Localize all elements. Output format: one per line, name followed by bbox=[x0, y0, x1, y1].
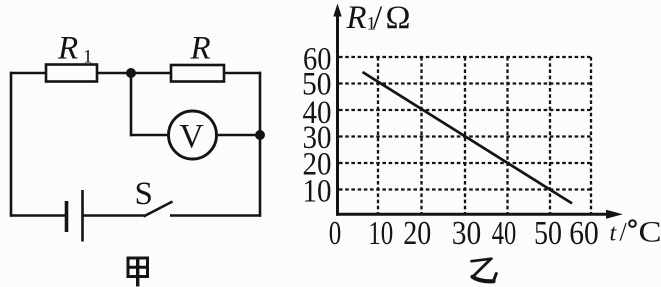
wire bottom right from switch to right rail bbox=[170, 214, 261, 217]
node A junction dot bbox=[126, 68, 136, 78]
gridline t=40 bbox=[506, 57, 508, 213]
node B junction dot bbox=[255, 130, 265, 140]
gridline R=40 bbox=[339, 109, 592, 111]
svg-text:C: C bbox=[639, 216, 661, 249]
gridline t=60 bbox=[590, 57, 592, 213]
svg-text:60: 60 bbox=[569, 215, 599, 252]
wire top-left from left rail to R1 bbox=[10, 72, 46, 75]
gridline t=30 bbox=[464, 57, 466, 213]
svg-text:0: 0 bbox=[329, 215, 342, 252]
y axis label R1/ohm bbox=[346, 0, 411, 36]
resistor R1 bbox=[46, 65, 97, 82]
svg-text:30: 30 bbox=[452, 215, 482, 252]
svg-text:50: 50 bbox=[534, 215, 562, 252]
y tick labels bbox=[302, 42, 332, 210]
voltmeter U1 bbox=[169, 111, 217, 159]
x axis bbox=[336, 213, 612, 216]
svg-text:/: / bbox=[620, 218, 628, 247]
gridline R=20 bbox=[339, 162, 592, 164]
gridline R=30 bbox=[339, 135, 592, 137]
svg-text:Ω: Ω bbox=[386, 0, 411, 36]
wire right rail lower bbox=[259, 135, 262, 217]
label jia (drawn CJK) bbox=[128, 258, 148, 287]
wire battery to switch bbox=[83, 214, 145, 217]
switch S blade bbox=[144, 202, 173, 217]
gridline R=50 bbox=[339, 82, 592, 84]
x tick labels bbox=[329, 215, 599, 252]
label yi (drawn CJK) bbox=[472, 259, 497, 282]
wire left rail bbox=[10, 72, 13, 217]
data line R1 vs t bbox=[363, 72, 573, 203]
x axis arrowhead bbox=[606, 210, 623, 219]
wire node A down to voltmeter branch bbox=[130, 73, 133, 136]
gridline t=10 bbox=[377, 57, 379, 213]
gridline t=20 bbox=[420, 57, 422, 213]
svg-text:10: 10 bbox=[368, 215, 393, 252]
svg-text:20: 20 bbox=[403, 215, 431, 252]
battery BT1 short plate bbox=[65, 201, 69, 232]
svg-text:10: 10 bbox=[303, 174, 332, 210]
wire R to top-right corner bbox=[224, 72, 261, 75]
wire node A to R bbox=[131, 72, 171, 75]
gridline R=10 bbox=[339, 188, 592, 190]
gridline t=50 bbox=[549, 57, 551, 213]
svg-text:R: R bbox=[190, 31, 211, 67]
y axis arrowhead bbox=[333, 4, 341, 17]
svg-text:R: R bbox=[346, 0, 367, 36]
svg-text:S: S bbox=[135, 176, 153, 212]
wire bottom from left rail to battery bbox=[10, 214, 67, 217]
wire voltmeter to node B bbox=[217, 134, 261, 137]
wire R1 to node A bbox=[97, 72, 131, 75]
resistor R bbox=[171, 65, 224, 82]
wire voltmeter branch left bbox=[131, 134, 169, 137]
x axis label t/degC bbox=[610, 216, 661, 249]
dashed grid horizontals bbox=[339, 57, 592, 213]
svg-text:R: R bbox=[57, 31, 78, 67]
svg-text:40: 40 bbox=[492, 215, 517, 252]
svg-text:V: V bbox=[179, 118, 204, 155]
wire right rail upper bbox=[259, 72, 262, 135]
graph: y axis bbox=[336, 15, 339, 216]
gridline R=60 bbox=[339, 56, 592, 58]
battery BT1 long plate bbox=[81, 190, 84, 242]
svg-text:1: 1 bbox=[83, 47, 93, 68]
svg-text:/: / bbox=[373, 0, 383, 36]
